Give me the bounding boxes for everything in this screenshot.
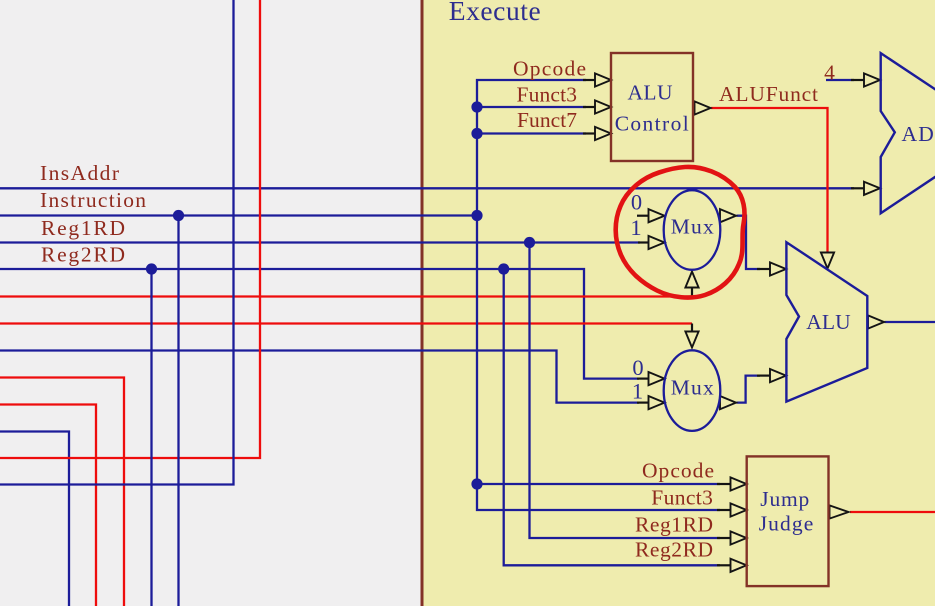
wire mux2 output to ALU bbox=[737, 376, 761, 403]
wire blue corner x=69 bbox=[0, 432, 69, 606]
wire blue vertical x=233.5 from top bbox=[0, 0, 234, 485]
stub ALU inputs bbox=[757, 268, 770, 270]
wire InsAddr horizontal y=188.3 bbox=[0, 187, 854, 189]
wire ALU output to right edge bbox=[885, 321, 935, 323]
wire red corner x=124 bbox=[0, 378, 124, 606]
wire red corner x=96 bbox=[0, 405, 96, 606]
svg-text:Instruction: Instruction bbox=[40, 188, 146, 212]
wire Reg2RD horizontal y=269 to corner down bbox=[0, 269, 639, 379]
stub mux2 in1 bbox=[637, 402, 649, 404]
arrow alucontrol in1 bbox=[595, 73, 611, 86]
svg-text:Reg2RD: Reg2RD bbox=[41, 243, 125, 267]
node instruction T dot bbox=[471, 210, 482, 221]
arrow jumpjudge in reg1rd bbox=[731, 531, 747, 544]
arrow mux2 in1 bbox=[649, 396, 665, 409]
wire Instruction horizontal y=215.5 bbox=[0, 214, 477, 216]
svg-text:Reg1RD: Reg1RD bbox=[635, 513, 713, 537]
mux M2 ellipse bbox=[664, 350, 721, 431]
arrow mux1 out bbox=[720, 209, 736, 222]
svg-text:Execute: Execute bbox=[449, 0, 541, 26]
node funct7 dot bbox=[471, 128, 482, 139]
node reg2rd branch dot bbox=[146, 263, 157, 274]
mux M1 ellipse bbox=[664, 190, 721, 270]
stub alucontrol in3 bbox=[583, 132, 595, 134]
arrow jumpjudge in funct3 bbox=[731, 503, 747, 516]
wire instruction riser x=477 opcode/funct3 bbox=[477, 80, 720, 510]
node instruction branch dot bbox=[173, 210, 184, 221]
stub mux1 in1 bbox=[638, 241, 649, 243]
arrow ALU funct down bbox=[821, 253, 834, 269]
wire Reg1RD horizontal y=242.5 bbox=[0, 241, 640, 243]
arrow jumpjudge out bbox=[830, 505, 849, 518]
wire funct3 branch y=107 bbox=[477, 106, 586, 108]
svg-text:Mux: Mux bbox=[671, 215, 714, 239]
wire mux2 select red y=323.5 bbox=[0, 322, 692, 324]
node jumpjudge opcode dot bbox=[471, 478, 482, 489]
arrow ADD in insaddr bbox=[864, 182, 880, 195]
stub mux2 select vertical bbox=[691, 324, 693, 333]
wire mux1 select red y=296.5 bbox=[0, 295, 692, 297]
svg-text:Opcode: Opcode bbox=[513, 56, 586, 80]
svg-text:4: 4 bbox=[824, 61, 835, 85]
svg-text:Control: Control bbox=[615, 111, 689, 135]
svg-text:ALU: ALU bbox=[806, 310, 851, 334]
adder U3 polygon (clipped right) bbox=[881, 53, 935, 213]
node reg2rd dot2 bbox=[498, 263, 509, 274]
stub jumpjudge inputs bbox=[717, 483, 731, 485]
stub mux2 in0 bbox=[637, 378, 649, 380]
wire reg1rd riser x=530.5 bbox=[530, 243, 721, 539]
svg-text:1: 1 bbox=[632, 379, 643, 404]
svg-text:1: 1 bbox=[630, 215, 641, 240]
arrow jumpjudge in opcode bbox=[731, 477, 747, 490]
arrow mux2 select down bbox=[685, 332, 698, 348]
svg-text:Reg1RD: Reg1RD bbox=[41, 216, 125, 240]
wire jumpjudge opcode branch y=484 bbox=[477, 483, 720, 485]
arrow ALU out bbox=[868, 315, 884, 328]
wire blue vertical x=178.5 instruction branch bbox=[177, 216, 179, 606]
stub ADD inputs bbox=[851, 79, 864, 81]
arrow mux1 in0 bbox=[649, 209, 665, 222]
wire blue vertical x=151.5 reg2rd branch bbox=[150, 269, 152, 606]
arrow alucontrol in3 bbox=[595, 127, 611, 140]
svg-text:Reg2RD: Reg2RD bbox=[635, 538, 713, 562]
wire funct7 branch y=133.5 bbox=[477, 132, 586, 134]
arrow ADD in 4 bbox=[864, 73, 880, 86]
Jump Judge U4 box bbox=[747, 456, 829, 586]
svg-text:Mux: Mux bbox=[671, 376, 714, 400]
Execute stage background bbox=[423, 0, 935, 606]
ALU U2 polygon bbox=[786, 242, 867, 401]
arrow mux1 select up bbox=[685, 272, 698, 288]
node reg1rd dot bbox=[524, 237, 535, 248]
svg-text:InsAddr: InsAddr bbox=[40, 161, 119, 185]
arrow alucontrol in2 bbox=[595, 100, 611, 113]
wire JumpJudge output red to right edge bbox=[850, 511, 935, 513]
wire mux1 output to ALU bbox=[737, 216, 761, 269]
black stubs before arrows bbox=[583, 80, 864, 565]
stub mux1 in0 bbox=[637, 215, 649, 217]
wire red vertical x=261 from top bbox=[0, 0, 260, 458]
arrow mux2 out bbox=[720, 396, 736, 409]
svg-text:0: 0 bbox=[632, 355, 643, 380]
svg-text:Funct3: Funct3 bbox=[517, 82, 578, 106]
svg-text:Judge: Judge bbox=[759, 511, 814, 535]
svg-text:0: 0 bbox=[631, 190, 642, 215]
arrow alucontrol out bbox=[695, 101, 711, 114]
svg-text:Jump: Jump bbox=[760, 487, 809, 511]
arrow jumpjudge in reg2rd bbox=[731, 559, 747, 572]
wire imm to mux2 input1 y=350.5 bbox=[0, 351, 639, 403]
text layer bbox=[40, 56, 835, 561]
Execute stage left border bbox=[421, 0, 424, 606]
wire reg2rd riser x=503.7 bbox=[504, 269, 720, 565]
stub mux1 select vertical bbox=[691, 287, 693, 297]
svg-text:ALUFunct: ALUFunct bbox=[719, 82, 818, 106]
stub alucontrol in1 bbox=[583, 79, 595, 81]
node funct3 dot bbox=[471, 101, 482, 112]
svg-text:ALU: ALU bbox=[628, 81, 673, 105]
arrow mux2 in0 bbox=[649, 372, 665, 385]
annotation: red hand-drawn circle around mux M1 bbox=[616, 167, 745, 298]
ALU Control U1 box bbox=[611, 53, 693, 161]
wire 4 to ADD bbox=[826, 79, 854, 81]
arrow ALU in bottom bbox=[770, 369, 786, 382]
wire ALUFunct red bbox=[711, 108, 828, 252]
svg-text:Opcode: Opcode bbox=[642, 458, 714, 482]
arrow ALU in top bbox=[770, 262, 786, 275]
svg-text:ADD: ADD bbox=[902, 122, 935, 146]
svg-text:Funct7: Funct7 bbox=[517, 108, 577, 132]
stub alucontrol in2 bbox=[583, 106, 595, 108]
arrows (open triangles) bbox=[595, 73, 884, 572]
svg-text:Funct3: Funct3 bbox=[651, 485, 713, 509]
arrow mux1 in1 bbox=[649, 236, 665, 249]
